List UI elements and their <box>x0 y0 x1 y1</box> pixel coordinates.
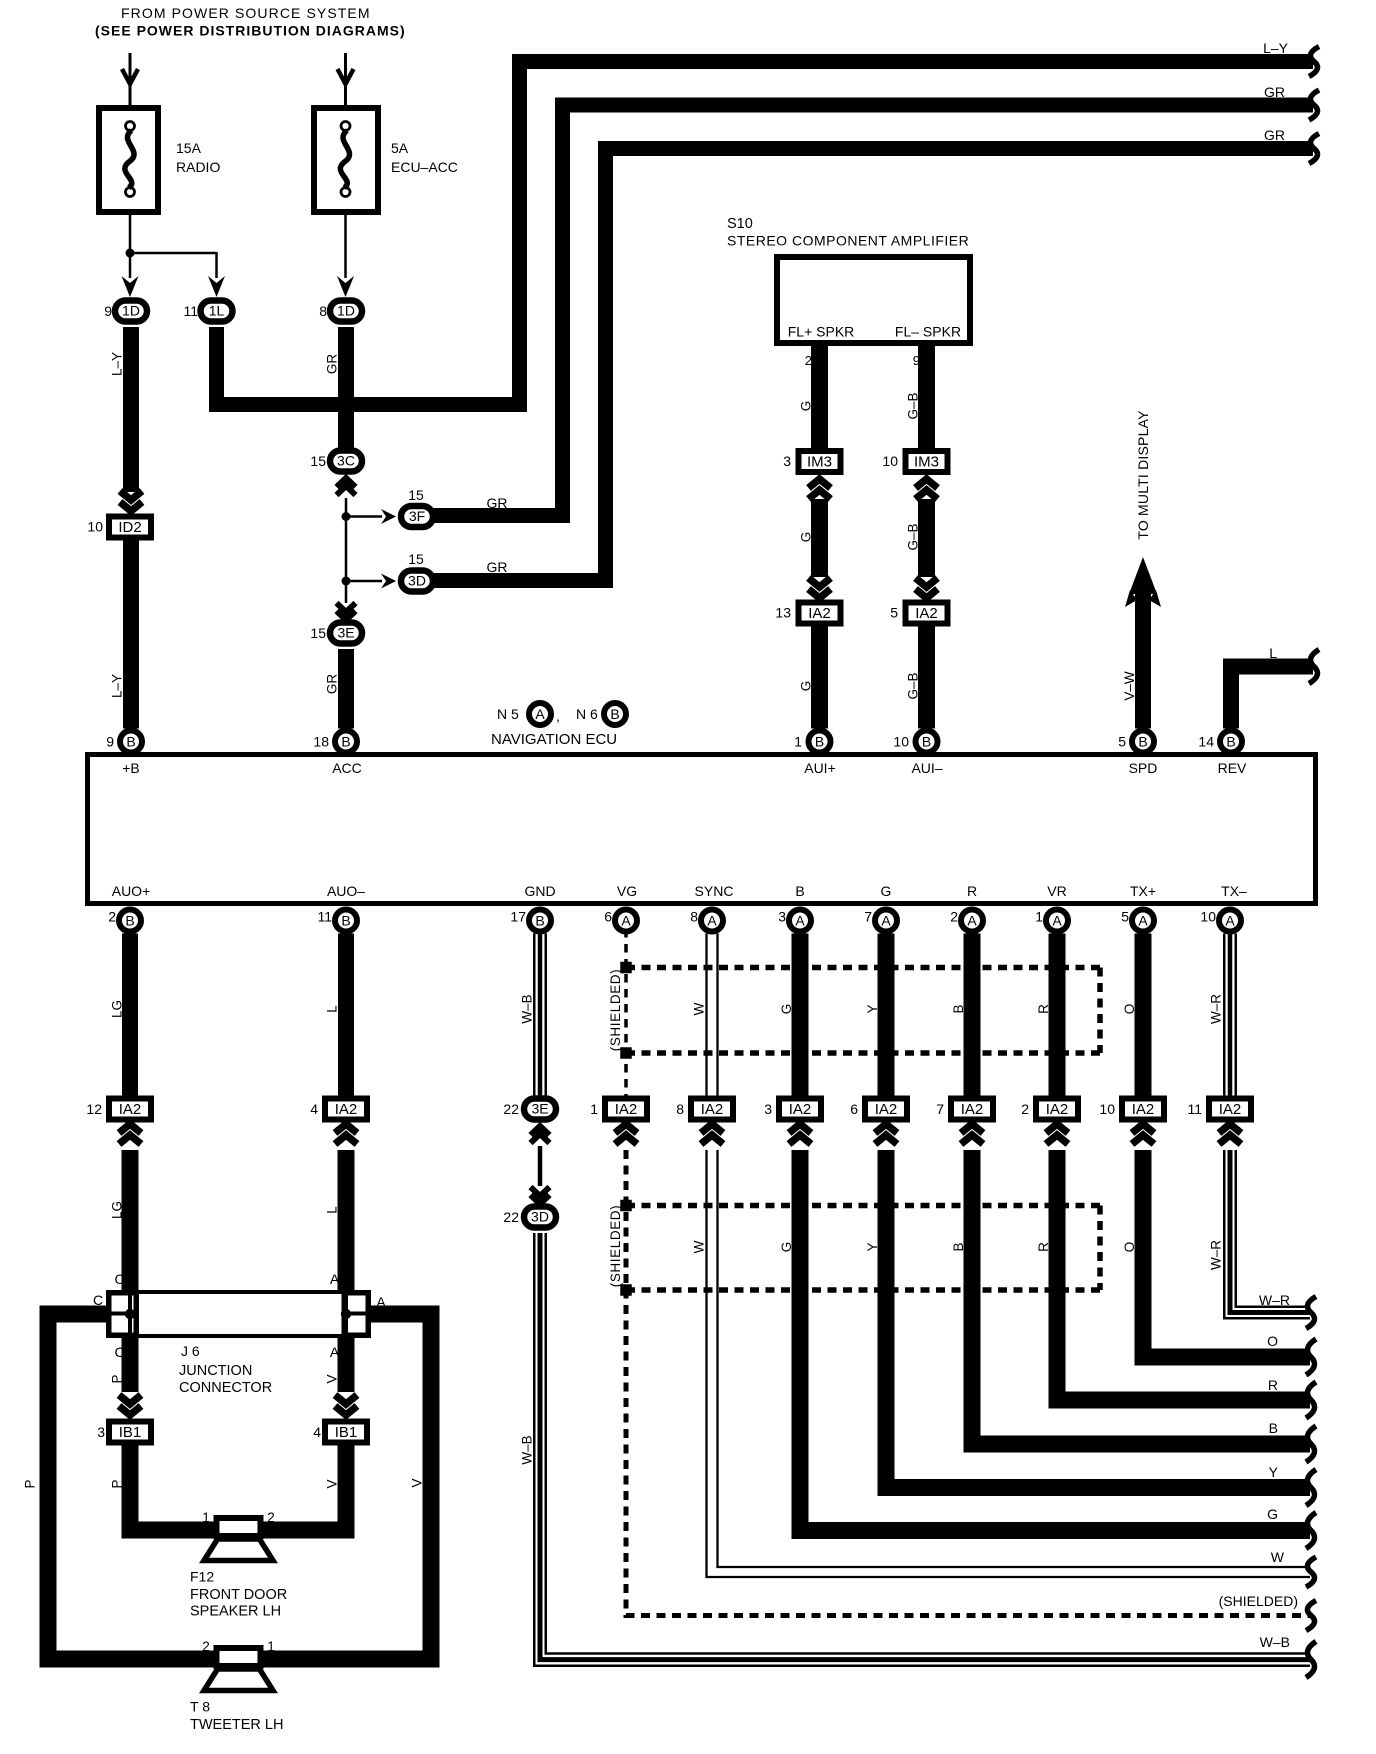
svg-text:G: G <box>1267 1506 1278 1522</box>
cut mark W-R <box>1306 1297 1316 1329</box>
arrow into 3F <box>381 509 396 524</box>
svg-text:G: G <box>779 1004 794 1015</box>
wire GR from 1D to 3C <box>338 327 354 448</box>
wire G IA2 to ECU AUI+ <box>811 626 828 729</box>
connector 1D pin 8 <box>330 301 362 322</box>
svg-text:10: 10 <box>893 734 909 750</box>
svg-text:(SHIELDED): (SHIELDED) <box>608 1205 623 1288</box>
svg-text:IA2: IA2 <box>615 1101 638 1118</box>
svg-text:IM3: IM3 <box>914 453 939 470</box>
pin 9 B at ECU +B <box>120 731 142 753</box>
svg-text:15: 15 <box>310 453 326 469</box>
arrow up from IM3 left <box>809 479 831 488</box>
svg-text:5: 5 <box>890 605 898 621</box>
svg-text:L: L <box>1269 645 1277 661</box>
wire into fuse F2 <box>344 53 347 121</box>
node J6 left <box>125 1309 135 1319</box>
svg-text:W–B: W–B <box>520 994 535 1023</box>
connector IM3 pin 10 <box>906 451 948 472</box>
wire R to right edge <box>1057 1150 1310 1400</box>
svg-text:IA2: IA2 <box>808 605 831 622</box>
connector IA2 pin 4 <box>325 1099 367 1120</box>
svg-text:B: B <box>951 1004 966 1013</box>
svg-text:B: B <box>815 734 824 750</box>
svg-text:P: P <box>110 1374 125 1383</box>
svg-text:FL– SPKR: FL– SPKR <box>895 324 961 340</box>
arrow into ID2 <box>120 491 142 500</box>
connector IA2 pin 10 col O <box>1122 1099 1164 1120</box>
wire G amp pin 2 to IM3 <box>811 346 828 448</box>
wire G-B IA2 to ECU AUI- <box>918 626 935 729</box>
svg-text:IA2: IA2 <box>1219 1101 1242 1118</box>
tweeter T8 <box>204 1669 273 1691</box>
svg-text:B: B <box>951 1242 966 1251</box>
svg-text:2: 2 <box>1021 1101 1029 1117</box>
svg-text:1: 1 <box>794 734 802 750</box>
connector IA2 pin 7 col B <box>951 1099 993 1120</box>
svg-text:9: 9 <box>104 303 112 319</box>
wire O to right edge <box>1143 1150 1310 1357</box>
svg-text:G: G <box>799 401 814 412</box>
svg-text:TO MULTI DISPLAY: TO MULTI DISPLAY <box>1135 410 1151 540</box>
wire L-Y from ID2 to ECU +B <box>123 540 139 729</box>
arrow to multi display <box>1129 557 1157 594</box>
cut mark W-B <box>1306 1642 1316 1678</box>
svg-text:ACC: ACC <box>332 760 362 776</box>
navigation ECU box <box>88 755 1316 904</box>
svg-text:3: 3 <box>97 1424 105 1440</box>
wire into fuse F1 <box>129 53 132 121</box>
arrow down into IA2 left <box>809 578 831 587</box>
cut mark G <box>1306 1513 1316 1549</box>
svg-text:3: 3 <box>783 453 791 469</box>
svg-text:GR: GR <box>487 559 508 575</box>
svg-text:(SHIELDED): (SHIELDED) <box>608 969 623 1052</box>
svg-text:B: B <box>1269 1420 1278 1436</box>
svg-text:NAVIGATION ECU: NAVIGATION ECU <box>491 731 617 748</box>
svg-text:G: G <box>881 883 892 899</box>
svg-text:GR: GR <box>487 495 508 511</box>
arrow into connector 1D pin 8 <box>337 276 354 297</box>
wire L IA2 to J6 <box>338 1150 355 1290</box>
svg-text:12: 12 <box>86 1101 102 1117</box>
svg-text:L–Y: L–Y <box>1263 40 1289 56</box>
arrow up below IA2 3 <box>789 1124 811 1133</box>
svg-text:TWEETER LH: TWEETER LH <box>190 1717 283 1733</box>
svg-text:15A: 15A <box>176 140 202 156</box>
ECU bottom pin 8 A <box>701 910 723 932</box>
svg-text:C: C <box>93 1292 103 1308</box>
wire B from ECU to IA2 <box>964 934 981 1097</box>
svg-text:G: G <box>799 681 814 692</box>
wire inside J6 left <box>128 1293 132 1335</box>
svg-text:3D: 3D <box>531 1209 549 1225</box>
svg-text:W–R: W–R <box>1209 1240 1224 1270</box>
svg-text:IB1: IB1 <box>335 1424 358 1441</box>
wire LG AUO+ to IA2 <box>122 934 138 1097</box>
wire W-B GND to 3E <box>533 934 536 1097</box>
svg-text:2: 2 <box>108 909 116 925</box>
svg-text:15: 15 <box>408 551 424 567</box>
arrow down into 3D <box>531 1187 550 1196</box>
svg-text:A: A <box>376 1294 386 1310</box>
svg-text:B: B <box>610 706 619 722</box>
pin 10 B at ECU AUI- <box>916 731 938 753</box>
svg-text:A: A <box>795 913 805 929</box>
ECU bottom pin 5 A <box>1132 910 1154 932</box>
svg-text:17: 17 <box>510 909 526 925</box>
wire W SYNC to IA2 <box>705 934 707 1097</box>
svg-text:GR: GR <box>1264 127 1285 143</box>
ECU bottom pin 10 A <box>1219 910 1241 932</box>
svg-text:2: 2 <box>950 909 958 925</box>
arrow up below IA2 12 <box>119 1124 141 1133</box>
wire GR from 3D to top right <box>433 149 1313 581</box>
svg-text:1: 1 <box>1035 909 1043 925</box>
svg-text:F12: F12 <box>190 1569 214 1585</box>
svg-text:C: C <box>114 1271 124 1287</box>
svg-text:5: 5 <box>1118 734 1126 750</box>
svg-text:L–Y: L–Y <box>110 674 125 698</box>
svg-text:15: 15 <box>310 625 326 641</box>
connector IA2 pin 1 <box>605 1099 647 1120</box>
wire W-B 3D to right edge <box>534 1233 1310 1666</box>
svg-text:N 6: N 6 <box>576 706 598 722</box>
wire GR from 3F to top right <box>433 105 1313 516</box>
svg-text:ECU–ACC: ECU–ACC <box>391 159 458 175</box>
connector IA2 pin 12 <box>109 1099 151 1120</box>
svg-text:1D: 1D <box>122 303 140 319</box>
svg-text:4: 4 <box>310 1101 318 1117</box>
svg-text:10: 10 <box>1200 909 1216 925</box>
svg-text:B: B <box>341 734 350 750</box>
fuse F1 15A RADIO <box>99 108 158 212</box>
arrow up below IA2 1 <box>615 1124 637 1133</box>
connector 3D pin 22 <box>524 1207 556 1228</box>
svg-text:CONNECTOR: CONNECTOR <box>179 1380 272 1396</box>
svg-text:IB1: IB1 <box>119 1424 142 1441</box>
svg-text:A: A <box>1138 913 1148 929</box>
connector IA2 pin 11 <box>1209 1099 1251 1120</box>
svg-text:GND: GND <box>524 883 555 899</box>
svg-text:IA2: IA2 <box>1132 1101 1155 1118</box>
svg-text:VG: VG <box>617 883 637 899</box>
svg-text:V: V <box>325 1479 340 1488</box>
fuse F2 5A ECU-ACC <box>314 108 378 212</box>
connector IB1 pin 3 <box>109 1422 151 1443</box>
connector 3C pin 15 <box>330 451 362 472</box>
svg-text:1: 1 <box>267 1639 275 1654</box>
svg-text:IA2: IA2 <box>875 1101 898 1118</box>
svg-text:3D: 3D <box>408 573 426 589</box>
svg-text:GR: GR <box>1264 84 1285 100</box>
svg-text:C: C <box>114 1344 124 1360</box>
connector IA2 pin 6 col Y <box>865 1099 907 1120</box>
svg-text:RADIO: RADIO <box>176 159 220 175</box>
ECU bottom pin 11 B <box>335 910 357 932</box>
wire P IB1 to speaker <box>130 1444 346 1530</box>
node to 3F <box>342 512 351 521</box>
svg-text:(SEE POWER DISTRIBUTION DIAGRA: (SEE POWER DISTRIBUTION DIAGRAMS) <box>95 23 406 39</box>
svg-text:SPD: SPD <box>1129 760 1158 776</box>
amplifier S10 box <box>777 257 970 343</box>
svg-text:1: 1 <box>202 1510 210 1525</box>
svg-text:LG: LG <box>110 1201 125 1219</box>
wire R from ECU to IA2 <box>1049 934 1066 1097</box>
svg-text:IA2: IA2 <box>915 605 938 622</box>
svg-text:11: 11 <box>183 303 198 319</box>
connector 3D pin 15 <box>401 571 433 592</box>
connector IA2 pin 2 col R <box>1036 1099 1078 1120</box>
svg-text:ID2: ID2 <box>118 519 141 536</box>
svg-text:LG: LG <box>110 1000 125 1018</box>
svg-text:AUI–: AUI– <box>911 760 942 776</box>
svg-text:V: V <box>410 1478 425 1487</box>
pin 1 B at ECU AUI+ <box>809 731 831 753</box>
svg-text:A: A <box>1225 913 1235 929</box>
svg-text:R: R <box>1268 1377 1278 1393</box>
svg-text:J 6: J 6 <box>181 1343 200 1359</box>
node J6 right <box>341 1309 351 1319</box>
wire node to 1L branch <box>130 252 217 255</box>
svg-text:JUNCTION: JUNCTION <box>179 1363 252 1379</box>
wire G-B amp pin 9 to IM3 <box>918 346 935 448</box>
arrow up below IA2 8 <box>701 1124 723 1133</box>
connector 1L pin 11 <box>201 301 233 322</box>
svg-text:IA2: IA2 <box>961 1101 984 1118</box>
svg-text:8: 8 <box>676 1101 684 1117</box>
pin 5 B at ECU SPD <box>1132 731 1154 753</box>
wire fuse F2 to 1D <box>344 215 347 278</box>
svg-text:14: 14 <box>1198 734 1214 750</box>
arrow up from IM3 right <box>916 479 938 488</box>
ECU bottom pin 17 B <box>529 910 551 932</box>
svg-text:Y: Y <box>865 1242 880 1251</box>
svg-text:G–B: G–B <box>906 392 921 419</box>
connector IA2 pin 13 <box>799 603 841 624</box>
svg-text:7: 7 <box>936 1101 944 1117</box>
svg-text:11: 11 <box>317 909 332 925</box>
svg-text:6: 6 <box>604 909 612 925</box>
svg-text:V–W: V–W <box>1122 671 1137 701</box>
svg-text:8: 8 <box>690 909 698 925</box>
svg-text:1: 1 <box>590 1101 598 1117</box>
svg-text:2: 2 <box>267 1510 275 1525</box>
svg-text:FRONT DOOR: FRONT DOOR <box>190 1587 287 1603</box>
svg-text:L–Y: L–Y <box>110 352 125 376</box>
shield box lower <box>626 1203 1100 1209</box>
junction connector J6 box <box>108 1292 365 1336</box>
wire W SYNC to right edge <box>707 1150 1311 1577</box>
svg-text:A: A <box>621 913 631 929</box>
node to 3D <box>342 577 351 586</box>
svg-text:B: B <box>125 913 134 929</box>
svg-text:V: V <box>325 1374 340 1383</box>
svg-text:10: 10 <box>882 453 898 469</box>
cut mark L-Y <box>1309 47 1319 77</box>
svg-text:IA2: IA2 <box>119 1101 142 1118</box>
svg-text:15: 15 <box>408 487 424 503</box>
svg-text:O: O <box>1122 1004 1137 1015</box>
svg-text:,: , <box>556 708 560 724</box>
svg-text:GR: GR <box>325 674 340 695</box>
svg-text:A: A <box>967 913 977 929</box>
wire 3C to 3E <box>345 498 348 603</box>
svg-text:IA2: IA2 <box>335 1101 358 1118</box>
svg-text:A: A <box>330 1344 340 1360</box>
svg-text:FL+ SPKR: FL+ SPKR <box>788 324 855 340</box>
arrow into 3C <box>337 478 356 487</box>
svg-text:3E: 3E <box>337 625 354 641</box>
svg-text:(SHIELDED): (SHIELDED) <box>1219 1593 1298 1609</box>
cut mark O <box>1306 1339 1316 1375</box>
svg-text:5: 5 <box>1121 909 1129 925</box>
svg-text:R: R <box>1036 1242 1051 1252</box>
svg-text:22: 22 <box>503 1101 519 1117</box>
arrow up below IA2 10 <box>1132 1124 1154 1133</box>
ECU bottom pin 2 A <box>961 910 983 932</box>
cut mark B <box>1306 1426 1316 1462</box>
svg-text:3E: 3E <box>531 1101 548 1117</box>
arrow up below IA2 2 <box>1046 1124 1068 1133</box>
svg-text:SPEAKER LH: SPEAKER LH <box>190 1604 281 1620</box>
wire LG IA2 to J6 <box>122 1150 139 1290</box>
svg-text:3: 3 <box>778 909 786 925</box>
wire L from REV to right edge <box>1231 667 1313 729</box>
wire inside J6 right <box>344 1293 348 1335</box>
pin 14 B at ECU REV <box>1220 731 1242 753</box>
connector IA2 pin 8 <box>691 1099 733 1120</box>
svg-text:TX–: TX– <box>1221 883 1247 899</box>
svg-text:S10: S10 <box>727 216 753 232</box>
svg-text:REV: REV <box>1218 760 1247 776</box>
wire Y from ECU to IA2 <box>878 934 895 1097</box>
svg-text:R: R <box>967 883 977 899</box>
arrow up below 3E <box>531 1126 550 1135</box>
svg-text:2: 2 <box>805 353 812 368</box>
svg-text:VR: VR <box>1047 883 1066 899</box>
svg-text:W: W <box>692 1002 707 1015</box>
svg-text:5A: 5A <box>391 140 409 156</box>
connector 1D pin 9 <box>115 301 147 322</box>
svg-text:8: 8 <box>319 303 327 319</box>
svg-text:3: 3 <box>764 1101 772 1117</box>
wire G-B IM3 to IA2 <box>918 499 935 577</box>
cut mark GR3 <box>1309 134 1319 164</box>
svg-text:2: 2 <box>202 1639 210 1654</box>
svg-text:22: 22 <box>503 1209 519 1225</box>
svg-text:AUO+: AUO+ <box>112 883 151 899</box>
cut mark R <box>1306 1382 1316 1418</box>
svg-text:13: 13 <box>775 605 791 621</box>
svg-text:Y: Y <box>1269 1464 1279 1480</box>
svg-text:1D: 1D <box>337 303 355 319</box>
svg-text:+B: +B <box>122 760 140 776</box>
svg-text:1L: 1L <box>209 303 225 319</box>
svg-text:T 8: T 8 <box>190 1699 210 1715</box>
svg-text:L: L <box>325 1005 340 1013</box>
svg-text:9: 9 <box>106 734 114 750</box>
svg-text:W–R: W–R <box>1209 994 1224 1024</box>
svg-text:O: O <box>1267 1333 1278 1349</box>
wire L AUO- to IA2 <box>338 934 354 1097</box>
svg-text:6: 6 <box>850 1101 858 1117</box>
svg-text:A: A <box>881 913 891 929</box>
svg-text:B: B <box>535 913 544 929</box>
cut mark GR2 <box>1309 90 1319 120</box>
svg-text:11: 11 <box>1187 1101 1202 1117</box>
J6 right terminal square <box>344 1293 368 1336</box>
svg-text:W–B: W–B <box>520 1435 535 1464</box>
svg-text:P: P <box>23 1479 38 1488</box>
ECU bottom pin 6 A <box>615 910 637 932</box>
wire G IM3 to IA2 <box>811 499 828 577</box>
svg-text:GR: GR <box>325 354 340 375</box>
svg-text:G–B: G–B <box>906 672 921 699</box>
wire G to right edge <box>800 1150 1310 1531</box>
ECU bottom pin 3 A <box>789 910 811 932</box>
wire L-Y from 1D to ID2 <box>123 327 139 492</box>
svg-text:L: L <box>325 1206 340 1214</box>
pin 18 B at ECU ACC <box>335 731 357 753</box>
wire Y to right edge <box>886 1150 1310 1488</box>
svg-text:A: A <box>707 913 717 929</box>
svg-text:B: B <box>341 913 350 929</box>
svg-text:AUO–: AUO– <box>327 883 365 899</box>
svg-text:G: G <box>779 1242 794 1253</box>
wire V-W SPD <box>1135 590 1151 729</box>
arrow into connector 1L pin 11 <box>208 276 225 297</box>
ECU bottom pin 1 A <box>1046 910 1068 932</box>
connector 3F pin 15 <box>401 506 433 527</box>
speaker loop outer wire <box>48 1314 431 1659</box>
arrow into 3E <box>337 603 356 612</box>
wire 3E to 3D <box>538 1146 543 1186</box>
svg-text:IA2: IA2 <box>701 1101 724 1118</box>
arrow up below IA2 4 <box>335 1124 357 1133</box>
svg-text:IA2: IA2 <box>789 1101 812 1118</box>
wire O from ECU to IA2 <box>1135 934 1152 1097</box>
wire GR from 3E to ECU ACC <box>338 649 354 729</box>
wire B to right edge <box>972 1150 1310 1444</box>
arrow up below IA2 6 <box>875 1124 897 1133</box>
svg-text:18: 18 <box>313 734 329 750</box>
front door speaker F12 <box>204 1539 273 1561</box>
svg-text:P: P <box>110 1479 125 1488</box>
arrow down into IA2 right <box>916 578 938 587</box>
svg-text:O: O <box>1122 1242 1137 1253</box>
svg-text:STEREO COMPONENT AMPLIFIER: STEREO COMPONENT AMPLIFIER <box>727 233 969 249</box>
arrow up below IA2 11 <box>1219 1124 1241 1133</box>
svg-text:SYNC: SYNC <box>695 883 734 899</box>
svg-text:IM3: IM3 <box>807 453 832 470</box>
connector IB1 pin 4 <box>325 1422 367 1443</box>
ECU bottom pin 2 B <box>119 910 141 932</box>
svg-text:10: 10 <box>1099 1101 1115 1117</box>
svg-text:IA2: IA2 <box>1046 1101 1069 1118</box>
arrow down into IB1 3 <box>119 1395 141 1404</box>
cut mark shielded <box>1306 1601 1316 1631</box>
ECU bottom pin 7 A <box>875 910 897 932</box>
connector 3E pin 15 <box>330 623 362 644</box>
svg-text:A: A <box>535 706 545 722</box>
svg-text:B: B <box>1138 734 1147 750</box>
connector IA2 pin 5 <box>906 603 948 624</box>
J6 left terminal square <box>109 1293 137 1336</box>
shielded wire VG to IA2 <box>624 929 628 1096</box>
svg-text:G: G <box>799 532 814 543</box>
wire W-R to right edge <box>1224 1150 1310 1318</box>
